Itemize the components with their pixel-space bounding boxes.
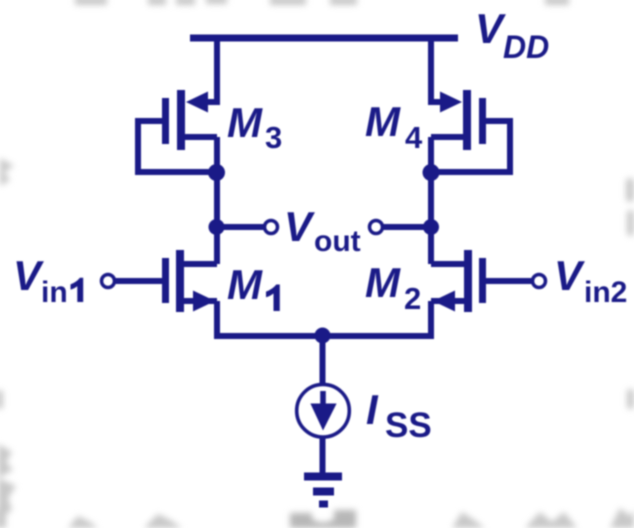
svg-text:DD: DD: [503, 29, 549, 65]
svg-text:M: M: [227, 99, 263, 146]
svg-text:4: 4: [405, 120, 423, 155]
svg-text:M: M: [227, 261, 263, 308]
svg-text:2: 2: [404, 281, 421, 316]
svg-text:in: in: [41, 276, 68, 309]
svg-text:V: V: [13, 252, 44, 299]
svg-text:M: M: [365, 259, 401, 306]
svg-text:M: M: [365, 98, 401, 145]
svg-text:in2: in2: [584, 276, 627, 309]
svg-text:V: V: [554, 252, 585, 299]
svg-text:V: V: [284, 203, 315, 250]
svg-text:out: out: [314, 225, 361, 258]
svg-text:SS: SS: [385, 406, 432, 445]
svg-text:3: 3: [265, 120, 282, 155]
svg-text:I: I: [366, 386, 379, 433]
svg-text:V: V: [475, 5, 506, 52]
